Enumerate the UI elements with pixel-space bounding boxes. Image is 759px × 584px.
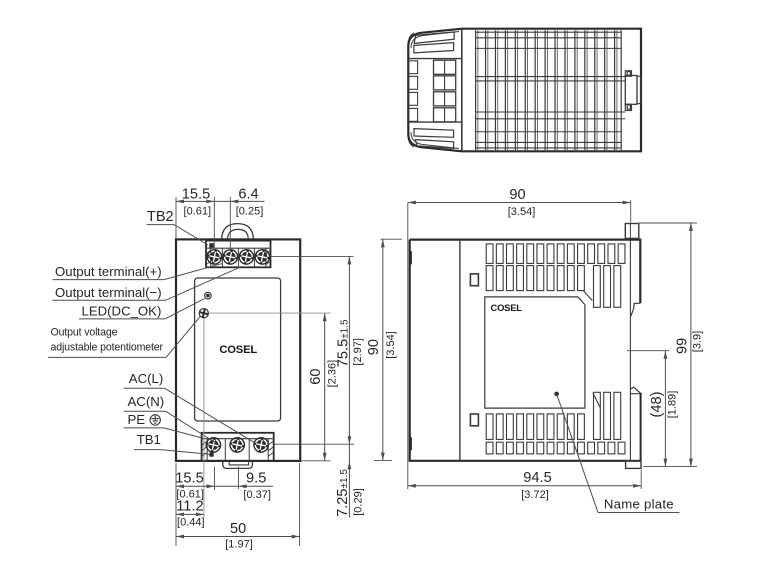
svg-text:50: 50 [230,521,246,537]
svg-text:[3.54]: [3.54] [508,206,536,218]
svg-text:[0.25]: [0.25] [236,206,264,218]
svg-text:15.5: 15.5 [182,187,210,203]
svg-text:[1.89]: [1.89] [667,391,679,419]
svg-text:[0.61]: [0.61] [184,205,212,217]
svg-text:COSEL: COSEL [219,344,257,356]
svg-text:LED(DC_OK): LED(DC_OK) [82,303,162,318]
svg-text:9.5: 9.5 [246,470,266,486]
svg-text:TB1: TB1 [137,432,161,447]
svg-text:(48): (48) [649,392,665,418]
svg-text:15.5: 15.5 [175,470,203,486]
svg-text:11.2: 11.2 [176,498,203,514]
svg-text:90: 90 [366,339,382,355]
svg-text:Output voltage: Output voltage [51,326,118,338]
svg-text:90: 90 [509,187,525,203]
svg-text:AC(L): AC(L) [129,371,163,386]
svg-text:adjustable potentiometer: adjustable potentiometer [51,342,164,354]
svg-text:[0.29]: [0.29] [353,488,365,516]
svg-text:[0.44]: [0.44] [177,517,205,529]
svg-text:[2.97]: [2.97] [352,338,364,366]
svg-text:COSEL: COSEL [491,302,523,313]
svg-text:[0.37]: [0.37] [243,489,271,501]
svg-text:AC(N): AC(N) [128,394,165,409]
svg-text:94.5: 94.5 [523,470,551,486]
svg-text:60: 60 [308,368,324,384]
svg-text:[3.54]: [3.54] [385,331,397,359]
svg-text:Output terminal(+): Output terminal(+) [55,264,162,279]
svg-text:99: 99 [675,338,691,354]
svg-text:Name plate: Name plate [604,496,674,511]
svg-text:PE: PE [128,412,146,427]
svg-text:[3.9]: [3.9] [692,331,704,352]
svg-text:[1.97]: [1.97] [225,538,253,550]
svg-text:6.4: 6.4 [238,187,258,203]
svg-text:Output terminal(−): Output terminal(−) [55,285,162,300]
svg-text:TB2: TB2 [147,209,174,225]
svg-text:[3.72]: [3.72] [521,489,549,501]
